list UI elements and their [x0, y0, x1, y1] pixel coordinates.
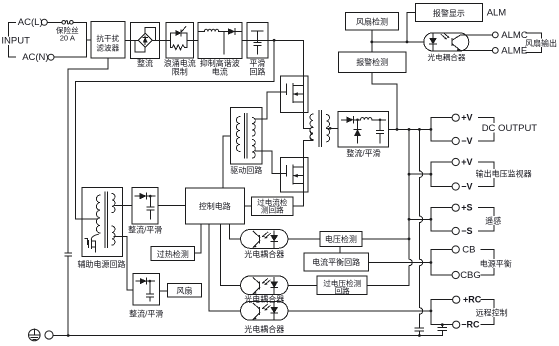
rectifier diode inside [144, 36, 146, 44]
block: fan 风扇 [167, 284, 201, 298]
wire fan-rect to fan [159, 290, 167, 292]
svg-text:整流: 整流 [137, 58, 153, 68]
wire OVP to bus B [367, 285, 409, 287]
wire bottom bus [53, 331, 442, 336]
node [370, 41, 373, 44]
wire [47, 21, 62, 23]
wire control to OCP [244, 205, 251, 207]
svg-text:+V: +V [461, 157, 472, 167]
drive transformer core [245, 114, 248, 159]
block: aux rect/smooth 整流/平滑 [132, 187, 158, 224]
drive secondary coils [252, 118, 255, 137]
svg-text:CB: CB [462, 244, 475, 255]
svg-text:遥感: 遥感 [485, 215, 501, 225]
wire secondary to rectifier [326, 127, 338, 129]
wire feed2 [409, 173, 431, 175]
label 远程控制 [475, 308, 509, 317]
capacitor C-RC [441, 325, 443, 336]
wire filter to ground bus [68, 58, 108, 253]
wire stub to filter [87, 39, 91, 41]
svg-text:平滑: 平滑 [249, 58, 265, 68]
wire control to opto3 [209, 224, 241, 311]
transformer T1 core [319, 110, 322, 146]
svg-text:DC OUTPUT: DC OUTPUT [482, 123, 538, 134]
svg-text:AC(L): AC(L) [18, 17, 43, 28]
svg-text:电压检测: 电压检测 [325, 234, 357, 244]
svg-text:整流/平滑: 整流/平滑 [129, 309, 163, 319]
svg-text:风扇: 风扇 [176, 286, 192, 296]
wire to alarm display [407, 13, 415, 42]
diode [228, 29, 234, 35]
block: noise filter 抗干扰滤波器 [91, 22, 125, 59]
label 遥感 [485, 216, 503, 225]
svg-text:限制: 限制 [172, 67, 188, 77]
svg-text:驱动回路: 驱动回路 [230, 165, 262, 175]
svg-text:浪涌电流: 浪涌电流 [164, 58, 196, 68]
block: main rect/smooth 整流/平滑 [338, 111, 389, 147]
terminal AC(L) [41, 19, 47, 25]
terminal pair 5 +RC/-RC [430, 300, 432, 325]
node [406, 41, 409, 44]
svg-text:报警检测: 报警检测 [356, 57, 388, 67]
svg-text:风扇输出: 风扇输出 [525, 38, 557, 48]
node [408, 128, 411, 131]
block: alarm display 报警显示 [415, 4, 482, 22]
node [441, 323, 444, 326]
wire [54, 56, 87, 58]
wire [242, 39, 247, 41]
block: OCP 过电流检测回路 [252, 197, 294, 215]
inductor [198, 31, 205, 33]
INPUT bracket [8, 22, 15, 57]
capacitor C-out [379, 120, 381, 143]
wire vdet-cbal [339, 246, 341, 253]
wire to node [268, 39, 274, 41]
thyristor [176, 30, 181, 36]
node main DC rail [273, 39, 276, 42]
svg-text:光电耦合器: 光电耦合器 [244, 249, 284, 259]
rectifier diamond [138, 33, 152, 47]
wire feed5 from opto3 [288, 310, 431, 312]
wire Q1 source to transformer [304, 112, 310, 128]
rectifier wires [131, 39, 139, 41]
optocoupler U2 [241, 230, 288, 249]
wire control to overheat [195, 224, 201, 253]
terminal pair 4 CB/CBG [430, 250, 432, 276]
block: alarm detect 报警检测 [338, 52, 406, 73]
svg-text:电流平衡回路: 电流平衡回路 [312, 257, 360, 267]
label DC OUTPUT [480, 123, 527, 133]
svg-text:控制电路: 控制电路 [199, 201, 231, 211]
svg-text:电流: 电流 [212, 67, 228, 77]
block: voltage detect 电压检测 [320, 231, 362, 246]
wire rail to MOSFET1 drain [274, 40, 304, 76]
node [418, 334, 421, 337]
svg-text:光电耦合器: 光电耦合器 [244, 294, 284, 304]
wire drive to mosfet1 gate [255, 92, 280, 119]
wire feed4 from current balance [369, 262, 431, 264]
node [408, 173, 411, 176]
optocoupler U4 [241, 302, 288, 321]
optocoupler U-alarm [424, 33, 469, 51]
svg-text:整流/平滑: 整流/平滑 [128, 224, 162, 234]
block: inrush limiter 浪涌电流限制 [166, 23, 193, 59]
wire vdet to bus [362, 238, 409, 240]
block: control circuit 控制电路 [185, 188, 244, 224]
svg-text:ALM: ALM [487, 8, 507, 19]
wire input vertical [86, 22, 88, 57]
wire rail down to aux supply [76, 40, 275, 219]
svg-text:−V: −V [461, 182, 472, 192]
wire Q2 source to OCP [293, 192, 304, 206]
svg-text:报警显示: 报警显示 [433, 8, 465, 18]
aux secondary coils [112, 194, 115, 213]
block: aux power 辅助电源回路 [82, 188, 123, 257]
block: fan rect/smooth 整流/平滑 [133, 274, 159, 305]
svg-text:测回路: 测回路 [261, 205, 284, 215]
svg-text:+V: +V [461, 113, 472, 123]
wire fan-alarm [371, 30, 373, 52]
node [408, 218, 411, 221]
wire aux to fan-rect [123, 236, 133, 289]
svg-text:回路: 回路 [249, 67, 265, 77]
ground symbol PE [29, 329, 41, 341]
wire control to opto2 [220, 224, 240, 285]
wire primary bottom to Q2 [304, 141, 314, 158]
aux primary coil [96, 195, 100, 233]
svg-text:过热检测: 过热检测 [157, 249, 189, 259]
aux input stub [82, 218, 96, 220]
terminal pair 1 +V/-V [430, 118, 432, 141]
wire opto1 to vdet [288, 238, 320, 240]
wire alarm-detect tap [372, 73, 397, 130]
block: rectifier 整流 [131, 23, 160, 59]
wire to optocoupler [372, 41, 424, 43]
wire [125, 39, 131, 41]
wire aux-rect to control [158, 205, 185, 207]
label 风扇输出 [525, 39, 559, 48]
wire drive to mosfet2 gate [255, 151, 280, 174]
terminal AC(N) [48, 54, 54, 60]
transformer T1 primary [310, 114, 313, 140]
aux transformer core [105, 192, 108, 247]
diode D1 [347, 117, 354, 123]
svg-text:输出电压监视器: 输出电压监视器 [476, 169, 532, 179]
svg-text:ALME: ALME [501, 45, 527, 56]
svg-text:整流/平滑: 整流/平滑 [346, 148, 380, 158]
svg-text:电源平衡: 电源平衡 [480, 259, 512, 269]
svg-text:−S: −S [461, 226, 472, 236]
node [356, 119, 359, 122]
wire feed1 [389, 128, 431, 130]
terminal pair 3 +S/-S [430, 208, 432, 231]
svg-text:风扇检测: 风扇检测 [356, 16, 388, 26]
phototransistor [451, 39, 453, 46]
svg-text:20 A: 20 A [60, 34, 76, 43]
svg-text:滤波器: 滤波器 [96, 43, 119, 53]
resistor [170, 45, 187, 50]
svg-text:远程控制: 远程控制 [476, 308, 508, 318]
wire feed3 [409, 218, 431, 220]
svg-text:光电耦合器: 光电耦合器 [244, 324, 284, 334]
label 输出电压监视器 [475, 169, 533, 178]
label 电源平衡 [480, 259, 514, 268]
wire [159, 39, 166, 41]
aux MOSFET Q3 [91, 234, 98, 239]
node [379, 119, 382, 122]
svg-text:回路: 回路 [335, 286, 351, 296]
block: smoothing 平滑回路 [247, 23, 268, 59]
block: drive circuit 驱动回路 [231, 108, 263, 164]
block: fan detect 风扇检测 [345, 12, 398, 30]
diode D2 freewheel [357, 120, 359, 143]
svg-text:+RC: +RC [463, 295, 482, 305]
capacitor on ground bus [65, 253, 72, 256]
wire aux to aux-rect [123, 204, 132, 206]
bus B vertical [367, 129, 412, 285]
bus C vertical with hops [419, 129, 422, 328]
bracket fan output [526, 33, 541, 52]
svg-text:CBG: CBG [460, 270, 481, 281]
block: overheat detect 过热检测 [151, 246, 195, 260]
drive primary coil [236, 117, 239, 152]
svg-text:光电耦合器: 光电耦合器 [428, 52, 466, 62]
svg-text:−RC: −RC [461, 320, 480, 330]
transistor Q1 (upper MOSFET) [281, 76, 308, 113]
aux secondary leads [114, 205, 123, 236]
LED [432, 34, 434, 51]
wire opto2 to OVP [288, 284, 317, 286]
svg-text:+S: +S [461, 203, 472, 213]
svg-text:抑制高谐波: 抑制高谐波 [200, 58, 240, 68]
svg-text:−V: −V [461, 136, 472, 146]
wire [194, 39, 198, 41]
terminal pair 2 [430, 162, 432, 187]
block: OVP 过电压检测回路 [317, 276, 367, 294]
transformer T1 secondary [326, 115, 329, 128]
block: current balance 电流平衡回路 [304, 253, 369, 271]
terminal ALME [492, 48, 498, 54]
wire drive to control [223, 136, 231, 188]
node [408, 238, 411, 241]
svg-text:INPUT: INPUT [1, 36, 30, 47]
svg-text:AC(N): AC(N) [22, 52, 48, 63]
node [67, 334, 70, 337]
capacitor C-busC [415, 328, 423, 331]
terminal ground [45, 331, 53, 339]
transistor Q2 (lower MOSFET) [281, 158, 308, 192]
svg-text:抗干扰: 抗干扰 [96, 33, 119, 43]
node [430, 128, 433, 131]
node [396, 128, 399, 131]
label INPUT [1, 37, 25, 46]
choke L1 [361, 118, 372, 120]
node [418, 128, 421, 131]
svg-text:ALMC: ALMC [501, 30, 528, 41]
svg-text:辅助电源回路: 辅助电源回路 [78, 259, 126, 269]
block: harmonic suppress 抑制高谐波电流 [198, 23, 242, 59]
wire [73, 21, 86, 23]
wire control to opto1 [230, 224, 241, 239]
terminal ALMC [492, 32, 498, 38]
fuse F1 20A [62, 21, 66, 25]
optocoupler U3 [241, 276, 288, 295]
